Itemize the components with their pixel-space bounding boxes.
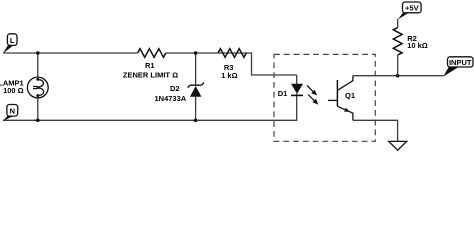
resistor R3 xyxy=(218,49,246,58)
svg-text:100 Ω: 100 Ω xyxy=(3,86,24,95)
ground xyxy=(389,141,407,150)
wire LED anode stub xyxy=(296,75,298,96)
svg-text:R1: R1 xyxy=(145,61,155,70)
svg-text:Q1: Q1 xyxy=(345,91,355,100)
svg-text:1N4733A: 1N4733A xyxy=(154,94,186,103)
optocoupler dashed box xyxy=(274,54,375,141)
wire +5V to R2 xyxy=(397,19,399,76)
svg-text:D1: D1 xyxy=(278,89,288,98)
flag INPUT xyxy=(443,57,473,77)
transistor Q1 xyxy=(328,76,353,121)
svg-text:D2: D2 xyxy=(170,84,180,93)
svg-text:L: L xyxy=(10,36,15,45)
node junction dot top zener xyxy=(194,51,198,55)
svg-text:N: N xyxy=(10,107,15,116)
svg-text:1 kΩ: 1 kΩ xyxy=(221,71,237,80)
node junction dot bottom zener xyxy=(194,119,198,123)
light arrows xyxy=(307,86,318,105)
svg-text:ZENER LIMIT Ω: ZENER LIMIT Ω xyxy=(123,71,178,80)
diode D2 zener xyxy=(188,83,204,97)
svg-text:10 kΩ: 10 kΩ xyxy=(407,41,428,50)
svg-text:+5V: +5V xyxy=(405,3,419,12)
wire bottom rail N xyxy=(3,96,297,121)
flag N xyxy=(3,105,18,121)
diode D1 LED xyxy=(291,84,303,96)
wire zener branch xyxy=(195,53,197,120)
wire lamp branch xyxy=(37,53,39,120)
node junction dot top lamp xyxy=(36,51,40,55)
resistor R2 xyxy=(393,28,402,55)
flag +5V xyxy=(398,2,421,20)
lamp LAMP1 xyxy=(27,77,48,98)
wire emitter to ground xyxy=(353,120,398,141)
node junction dot bottom lamp xyxy=(36,119,40,123)
flag L xyxy=(3,34,17,54)
wire top rail L xyxy=(3,53,297,75)
node junction dot collector R2 xyxy=(396,74,400,78)
wire collector to input xyxy=(353,75,444,77)
svg-text:INPUT: INPUT xyxy=(449,58,472,67)
resistor R1 xyxy=(138,49,166,58)
